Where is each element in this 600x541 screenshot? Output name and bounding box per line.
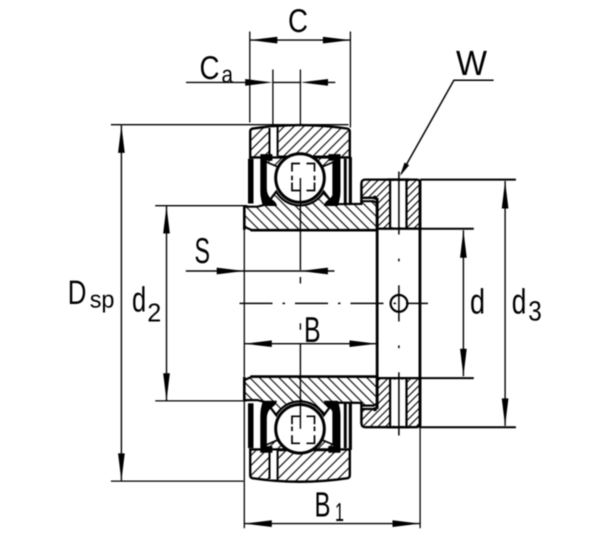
- collar bore edge extended (d extension line): [420, 228, 474, 230]
- svg-text:d: d: [132, 281, 146, 320]
- lubrication hole in outer ring bottom: [269, 451, 279, 480]
- collar top edge extended (d3 extension line): [420, 179, 516, 181]
- collar body right face: [419, 180, 422, 428]
- inner ring bore thick line: [251, 229, 378, 232]
- inner ring top section: [244, 192, 377, 231]
- svg-text:B: B: [304, 309, 321, 350]
- right seal washer: [344, 159, 347, 204]
- set screw axis chain line: [398, 172, 400, 436]
- svg-text:W: W: [456, 44, 487, 83]
- detail box on ball bottom: [292, 416, 315, 443]
- svg-text:a: a: [222, 62, 234, 89]
- svg-text:D: D: [68, 274, 87, 312]
- svg-text:C: C: [200, 49, 220, 86]
- detail box on ball: [292, 164, 315, 191]
- right seal lip line: [332, 161, 334, 199]
- svg-text:3: 3: [528, 296, 542, 327]
- right seal rubber: [324, 154, 341, 206]
- svg-text:1: 1: [335, 497, 344, 527]
- outer ring race shoulders bottom: [262, 439, 286, 450]
- svg-text:S: S: [195, 230, 211, 271]
- bottom half bearing section (mirror): [244, 323, 516, 481]
- outer ring left race shoulder: [262, 156, 286, 167]
- svg-text:C: C: [288, 2, 308, 39]
- collar edges extended bottom (d and d3 extension lines): [420, 377, 474, 379]
- shaft axis centre line: [240, 302, 429, 304]
- locking collar top section: [362, 180, 421, 229]
- set screw slot in collar: [391, 181, 406, 227]
- lubrication hole in outer ring: [269, 127, 279, 156]
- collar seat step edge: [360, 183, 362, 204]
- outer ring top section: [250, 125, 350, 157]
- ball top: [276, 154, 325, 203]
- inner ring bore and left face bottom: [251, 375, 378, 378]
- dimension C: [250, 32, 351, 128]
- ball bottom: [276, 405, 325, 454]
- eccentric step dot: [373, 196, 377, 200]
- svg-text:B: B: [315, 486, 331, 525]
- svg-text:d: d: [470, 282, 485, 321]
- dimension d: [462, 230, 464, 376]
- collar body left edge / inner ring right face: [376, 198, 379, 409]
- ball bottom centre line: [299, 344, 301, 429]
- collar seat step edge bottom: [360, 403, 362, 424]
- top half bearing section: [244, 125, 516, 283]
- dimension B1: [244, 230, 420, 528]
- outer ring bottom section: [250, 449, 350, 481]
- set screw slot in collar bottom: [391, 380, 406, 426]
- dimension B: [244, 343, 377, 345]
- dimension d2: [155, 206, 247, 401]
- left seal rubber: [260, 154, 277, 206]
- outer ring right face extension: [349, 157, 352, 205]
- inner ring bottom section: [244, 377, 377, 416]
- dimension Dsp: [111, 125, 349, 481]
- locking collar bottom section: [362, 378, 421, 427]
- dimension d3: [504, 181, 506, 426]
- left seal washer: [248, 159, 254, 204]
- svg-text:d: d: [512, 282, 527, 321]
- dimension S: [186, 270, 335, 272]
- svg-text:sp: sp: [90, 287, 115, 314]
- outer ring right race shoulder: [314, 156, 338, 167]
- dimension Ca: [186, 70, 335, 125]
- set screw hole circle: [391, 295, 408, 312]
- ball centre line: [299, 178, 301, 270]
- inner ring left face: [243, 207, 246, 231]
- svg-text:2: 2: [147, 297, 161, 327]
- seals bottom: [248, 403, 254, 448]
